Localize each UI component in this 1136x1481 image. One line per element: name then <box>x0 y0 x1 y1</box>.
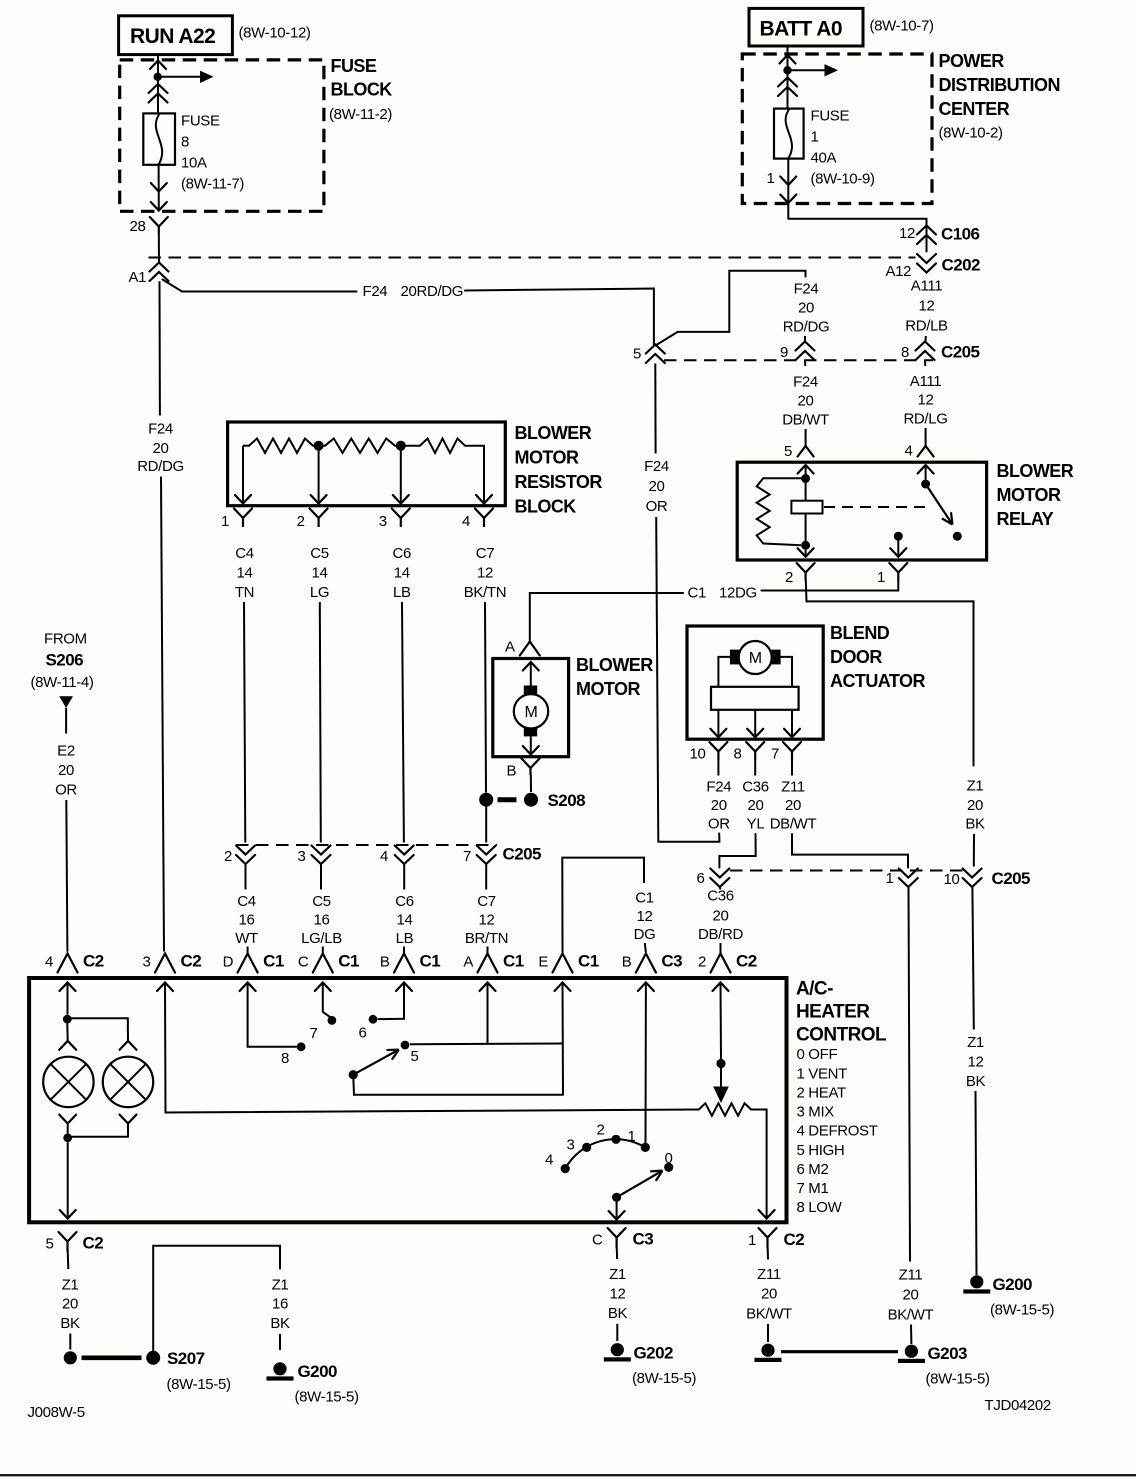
svg-text:G203: G203 <box>928 1344 967 1363</box>
svg-text:S208: S208 <box>548 791 586 810</box>
svg-text:C205: C205 <box>992 869 1031 888</box>
svg-text:2: 2 <box>297 513 305 530</box>
svg-text:BK/WT: BK/WT <box>746 1306 792 1323</box>
svg-text:16: 16 <box>272 1296 288 1313</box>
svg-text:C2: C2 <box>181 952 202 971</box>
svg-text:4: 4 <box>45 954 53 971</box>
svg-text:1: 1 <box>811 129 819 146</box>
svg-text:(8W-15-5): (8W-15-5) <box>295 1389 359 1406</box>
svg-text:20: 20 <box>798 300 814 317</box>
svg-text:C36: C36 <box>742 779 768 796</box>
svg-text:A/C-: A/C- <box>796 979 833 1000</box>
svg-text:C2: C2 <box>784 1230 805 1249</box>
svg-text:C1: C1 <box>688 585 706 602</box>
svg-text:E: E <box>538 954 548 971</box>
svg-text:3: 3 <box>298 848 306 865</box>
svg-text:C3: C3 <box>661 952 682 971</box>
svg-text:C6: C6 <box>393 545 411 562</box>
svg-text:8: 8 <box>281 1050 289 1067</box>
svg-text:C5: C5 <box>312 893 330 910</box>
svg-text:C1: C1 <box>635 890 653 907</box>
svg-text:2: 2 <box>597 1122 605 1139</box>
svg-text:3: 3 <box>379 513 387 530</box>
svg-text:2: 2 <box>224 848 232 865</box>
svg-text:C205: C205 <box>503 845 542 864</box>
svg-text:Z11: Z11 <box>781 779 805 796</box>
svg-text:12: 12 <box>918 392 934 409</box>
svg-text:1: 1 <box>877 569 885 586</box>
svg-text:20: 20 <box>649 478 665 495</box>
svg-text:F24: F24 <box>363 283 388 300</box>
svg-text:(8W-10-2): (8W-10-2) <box>939 125 1003 142</box>
svg-text:BK: BK <box>966 1073 986 1090</box>
svg-text:Z1: Z1 <box>967 778 984 795</box>
svg-text:Z1: Z1 <box>62 1277 79 1294</box>
svg-text:1: 1 <box>628 1128 636 1145</box>
svg-text:LB: LB <box>396 930 414 947</box>
svg-text:40A: 40A <box>811 150 837 167</box>
svg-text:RESISTOR: RESISTOR <box>515 472 603 492</box>
svg-text:3: 3 <box>143 954 151 971</box>
svg-text:8: 8 <box>901 344 909 361</box>
svg-text:28: 28 <box>130 218 146 235</box>
svg-text:20: 20 <box>711 797 727 814</box>
svg-text:Z11: Z11 <box>757 1266 781 1283</box>
svg-text:8 LOW: 8 LOW <box>797 1199 843 1216</box>
svg-text:20: 20 <box>903 1287 919 1304</box>
svg-text:DISTRIBUTION: DISTRIBUTION <box>939 75 1060 95</box>
svg-text:5: 5 <box>784 443 792 460</box>
svg-text:A: A <box>463 954 473 971</box>
svg-text:C1: C1 <box>503 952 524 971</box>
svg-text:LG/LB: LG/LB <box>301 930 342 947</box>
svg-text:12DG: 12DG <box>719 585 757 602</box>
svg-text:20: 20 <box>62 1296 78 1313</box>
svg-text:A12: A12 <box>886 263 912 280</box>
svg-text:F24: F24 <box>793 374 818 391</box>
svg-text:LB: LB <box>393 584 411 601</box>
svg-text:12: 12 <box>899 225 915 242</box>
svg-text:8: 8 <box>181 134 189 151</box>
svg-text:BK: BK <box>270 1315 290 1332</box>
svg-text:10: 10 <box>944 871 960 888</box>
svg-text:M: M <box>749 650 762 667</box>
svg-text:0 OFF: 0 OFF <box>797 1046 838 1063</box>
svg-text:E2: E2 <box>57 743 75 760</box>
svg-text:A: A <box>505 639 515 656</box>
svg-text:FROM: FROM <box>44 631 87 648</box>
svg-text:1: 1 <box>886 870 894 887</box>
svg-text:RD/DG: RD/DG <box>783 319 830 336</box>
svg-text:(8W-10-12): (8W-10-12) <box>239 25 311 42</box>
svg-text:BR/TN: BR/TN <box>465 930 508 947</box>
svg-text:A1: A1 <box>129 269 147 286</box>
svg-text:TN: TN <box>235 584 254 601</box>
svg-text:POWER: POWER <box>939 51 1005 71</box>
svg-text:BK: BK <box>965 816 985 833</box>
svg-text:2: 2 <box>698 954 706 971</box>
svg-text:OR: OR <box>708 816 730 833</box>
svg-text:C2: C2 <box>83 1234 104 1253</box>
svg-text:C4: C4 <box>237 893 255 910</box>
svg-text:7: 7 <box>310 1025 318 1042</box>
svg-text:DG: DG <box>634 926 656 943</box>
svg-text:14: 14 <box>312 565 328 582</box>
svg-text:C1: C1 <box>263 952 284 971</box>
svg-text:FUSE: FUSE <box>331 56 377 76</box>
svg-text:M: M <box>525 704 538 721</box>
svg-text:BATT A0: BATT A0 <box>760 18 842 41</box>
svg-text:12: 12 <box>968 1054 984 1071</box>
svg-text:(8W-10-9): (8W-10-9) <box>811 171 875 188</box>
svg-text:C4: C4 <box>235 545 253 562</box>
svg-text:BLOWER: BLOWER <box>515 423 592 443</box>
svg-text:14: 14 <box>394 565 410 582</box>
svg-text:Z11: Z11 <box>899 1267 923 1284</box>
svg-text:(8W-15-5): (8W-15-5) <box>990 1302 1054 1319</box>
svg-text:B: B <box>380 954 390 971</box>
svg-text:C202: C202 <box>942 256 981 275</box>
svg-text:12: 12 <box>610 1286 626 1303</box>
svg-text:C1: C1 <box>420 952 441 971</box>
svg-text:C5: C5 <box>310 545 328 562</box>
svg-text:G202: G202 <box>634 1344 673 1363</box>
svg-text:20: 20 <box>748 797 764 814</box>
svg-text:5: 5 <box>46 1236 54 1253</box>
svg-text:C36: C36 <box>707 888 733 905</box>
svg-text:B: B <box>622 954 632 971</box>
svg-text:0: 0 <box>665 1150 673 1167</box>
svg-text:12: 12 <box>919 298 935 315</box>
svg-text:BLOCK: BLOCK <box>331 80 393 100</box>
svg-text:OR: OR <box>55 782 77 799</box>
svg-text:C: C <box>298 954 309 971</box>
svg-text:LG: LG <box>310 584 329 601</box>
svg-text:DB/WT: DB/WT <box>770 816 817 833</box>
svg-text:FUSE: FUSE <box>181 113 220 130</box>
svg-text:(8W-15-5): (8W-15-5) <box>926 1371 990 1388</box>
svg-text:C1: C1 <box>338 952 359 971</box>
svg-text:DOOR: DOOR <box>830 647 882 667</box>
svg-text:Z1: Z1 <box>272 1277 289 1294</box>
svg-text:20: 20 <box>58 762 74 779</box>
svg-text:4 DEFROST: 4 DEFROST <box>797 1123 878 1140</box>
svg-text:5 HIGH: 5 HIGH <box>797 1142 845 1159</box>
svg-text:20: 20 <box>798 393 814 410</box>
svg-text:1: 1 <box>767 170 775 187</box>
svg-text:F24: F24 <box>794 281 819 298</box>
svg-text:1 VENT: 1 VENT <box>797 1065 848 1082</box>
svg-text:C: C <box>592 1232 603 1249</box>
svg-text:MOTOR: MOTOR <box>997 485 1061 505</box>
svg-text:BK: BK <box>60 1315 80 1332</box>
svg-text:3: 3 <box>567 1137 575 1154</box>
svg-text:BLEND: BLEND <box>830 623 890 643</box>
svg-text:6 M2: 6 M2 <box>797 1161 829 1178</box>
svg-text:2 HEAT: 2 HEAT <box>797 1084 846 1101</box>
svg-text:9: 9 <box>780 344 788 361</box>
svg-text:RD/LG: RD/LG <box>903 411 947 428</box>
svg-text:(8W-11-2): (8W-11-2) <box>329 106 392 123</box>
svg-text:C7: C7 <box>477 893 495 910</box>
svg-text:DB/WT: DB/WT <box>782 412 829 429</box>
svg-text:7: 7 <box>771 746 779 763</box>
svg-text:4: 4 <box>905 443 913 460</box>
svg-text:OR: OR <box>646 498 668 515</box>
svg-text:ACTUATOR: ACTUATOR <box>830 671 925 691</box>
svg-text:RD/LB: RD/LB <box>905 318 948 335</box>
svg-text:BLOWER: BLOWER <box>576 655 653 675</box>
svg-text:20: 20 <box>153 440 169 457</box>
svg-text:7: 7 <box>463 848 471 865</box>
svg-text:3 MIX: 3 MIX <box>797 1104 835 1121</box>
svg-text:B: B <box>507 763 517 780</box>
svg-text:RD/DG: RD/DG <box>137 458 184 475</box>
svg-text:1: 1 <box>748 1232 756 1249</box>
svg-text:8: 8 <box>734 746 742 763</box>
svg-text:7 M1: 7 M1 <box>797 1180 829 1197</box>
svg-text:20: 20 <box>967 797 983 814</box>
svg-text:F24: F24 <box>644 458 669 475</box>
svg-text:12: 12 <box>477 565 493 582</box>
svg-text:12: 12 <box>637 908 653 925</box>
svg-text:BK: BK <box>608 1305 628 1322</box>
svg-text:(8W-10-7): (8W-10-7) <box>870 18 934 35</box>
svg-text:BK/WT: BK/WT <box>888 1307 934 1324</box>
svg-text:HEATER: HEATER <box>796 1002 870 1023</box>
svg-text:RUN A22: RUN A22 <box>130 25 215 48</box>
svg-text:14: 14 <box>237 565 253 582</box>
svg-text:C205: C205 <box>941 343 980 362</box>
svg-text:C1: C1 <box>578 952 599 971</box>
svg-text:G200: G200 <box>993 1275 1032 1294</box>
svg-text:4: 4 <box>462 513 470 530</box>
svg-text:J008W-5: J008W-5 <box>28 1404 85 1421</box>
svg-text:20RD/DG: 20RD/DG <box>401 283 464 300</box>
svg-text:RELAY: RELAY <box>997 509 1054 529</box>
svg-text:(8W-15-5): (8W-15-5) <box>167 1376 231 1393</box>
svg-text:12: 12 <box>479 912 495 929</box>
svg-text:D: D <box>223 954 234 971</box>
svg-text:F24: F24 <box>148 421 173 438</box>
svg-text:14: 14 <box>397 912 413 929</box>
svg-text:C2: C2 <box>736 952 757 971</box>
svg-text:MOTOR: MOTOR <box>515 448 579 468</box>
svg-text:A111: A111 <box>910 373 941 390</box>
svg-text:5: 5 <box>411 1048 419 1065</box>
svg-text:16: 16 <box>314 912 330 929</box>
svg-text:Z1: Z1 <box>967 1034 984 1051</box>
svg-text:20: 20 <box>713 908 729 925</box>
svg-text:(8W-11-4): (8W-11-4) <box>31 674 94 691</box>
svg-text:C6: C6 <box>395 893 413 910</box>
svg-text:FUSE: FUSE <box>811 108 850 125</box>
svg-text:(8W-11-7): (8W-11-7) <box>181 176 244 193</box>
svg-text:DB/RD: DB/RD <box>698 926 743 943</box>
svg-text:TJD04202: TJD04202 <box>985 1397 1051 1414</box>
svg-text:BK/TN: BK/TN <box>464 584 506 601</box>
svg-text:WT: WT <box>235 930 258 947</box>
svg-text:5: 5 <box>633 346 641 363</box>
svg-text:Z1: Z1 <box>609 1266 626 1283</box>
svg-text:A111: A111 <box>911 278 942 295</box>
svg-text:10A: 10A <box>181 155 207 172</box>
svg-text:S206: S206 <box>46 651 84 670</box>
svg-text:4: 4 <box>545 1152 553 1169</box>
svg-text:C106: C106 <box>941 225 980 244</box>
svg-text:BLOCK: BLOCK <box>515 497 577 517</box>
svg-text:4: 4 <box>380 848 388 865</box>
svg-text:10: 10 <box>690 746 706 763</box>
svg-text:20: 20 <box>785 797 801 814</box>
svg-text:(8W-15-5): (8W-15-5) <box>632 1370 696 1387</box>
svg-text:F24: F24 <box>706 779 731 796</box>
svg-text:MOTOR: MOTOR <box>576 679 640 699</box>
svg-text:BLOWER: BLOWER <box>997 461 1074 481</box>
svg-text:C7: C7 <box>476 545 494 562</box>
svg-text:S207: S207 <box>167 1349 205 1368</box>
svg-text:YL: YL <box>747 816 765 833</box>
svg-text:G200: G200 <box>298 1362 337 1381</box>
svg-text:16: 16 <box>239 912 255 929</box>
svg-text:C3: C3 <box>633 1230 654 1249</box>
svg-text:1: 1 <box>221 513 229 530</box>
svg-text:20: 20 <box>761 1286 777 1303</box>
svg-text:CENTER: CENTER <box>939 99 1010 119</box>
svg-text:6: 6 <box>359 1025 367 1042</box>
svg-text:CONTROL: CONTROL <box>796 1025 887 1046</box>
svg-text:6: 6 <box>697 870 705 887</box>
svg-text:2: 2 <box>785 569 793 586</box>
svg-text:C2: C2 <box>83 952 104 971</box>
